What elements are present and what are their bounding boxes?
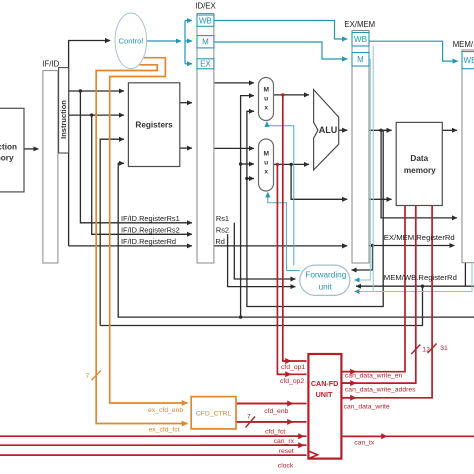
svg-text:MEM/: MEM/ <box>453 40 474 49</box>
svg-text:M: M <box>263 151 269 158</box>
svg-text:Instruction: Instruction <box>59 100 68 139</box>
svg-text:reset: reset <box>279 448 294 455</box>
svg-text:M: M <box>357 55 364 64</box>
svg-text:31: 31 <box>440 345 448 352</box>
svg-text:ex_cfd_fct: ex_cfd_fct <box>149 427 180 434</box>
svg-text:WB: WB <box>464 56 474 65</box>
svg-text:can_data_write_en: can_data_write_en <box>345 373 403 380</box>
svg-text:7: 7 <box>86 373 90 380</box>
svg-text:WB: WB <box>199 17 212 26</box>
svg-text:Rs1: Rs1 <box>216 214 229 223</box>
svg-text:IF/ID.RegisterRs1: IF/ID.RegisterRs1 <box>121 214 180 223</box>
svg-text:EX/MEM: EX/MEM <box>344 20 375 29</box>
svg-text:cfd_op1: cfd_op1 <box>281 364 305 371</box>
svg-text:Instruction: Instruction <box>0 143 17 152</box>
svg-text:EX: EX <box>200 60 211 69</box>
svg-text:IF/ID.RegisterRd: IF/ID.RegisterRd <box>121 237 176 246</box>
svg-text:7: 7 <box>247 413 251 420</box>
svg-text:Control: Control <box>119 36 144 45</box>
svg-text:MEM/WB.RegisterRd: MEM/WB.RegisterRd <box>384 273 457 282</box>
svg-text:u: u <box>264 95 268 102</box>
svg-text:u: u <box>264 160 268 167</box>
svg-text:M: M <box>202 38 209 47</box>
svg-text:cfd_enb: cfd_enb <box>264 408 288 415</box>
svg-text:Rd: Rd <box>215 237 224 246</box>
svg-text:unit: unit <box>319 282 333 291</box>
svg-text:Registers: Registers <box>135 120 173 129</box>
svg-text:can_data_write: can_data_write <box>344 404 390 411</box>
svg-text:IF/ID.RegisterRs2: IF/ID.RegisterRs2 <box>121 225 180 234</box>
svg-text:cfd_op2: cfd_op2 <box>280 378 304 385</box>
svg-text:Data: Data <box>410 154 428 163</box>
svg-text:CAN-FD: CAN-FD <box>311 379 339 388</box>
svg-text:EX/MEM.RegisterRd: EX/MEM.RegisterRd <box>384 233 455 242</box>
svg-text:x: x <box>264 104 268 111</box>
svg-text:can_rx: can_rx <box>274 438 295 445</box>
svg-text:cfd_fct: cfd_fct <box>265 429 285 436</box>
svg-text:can_tx: can_tx <box>354 440 375 447</box>
svg-text:ex_cfd_enb: ex_cfd_enb <box>148 407 183 414</box>
svg-text:Rs2: Rs2 <box>216 225 229 234</box>
svg-text:IF/ID: IF/ID <box>42 59 59 68</box>
svg-text:M: M <box>263 86 269 93</box>
svg-text:clock: clock <box>278 462 294 469</box>
svg-text:12: 12 <box>422 347 430 354</box>
svg-text:Forwarding: Forwarding <box>305 271 346 280</box>
svg-text:memory: memory <box>404 166 436 175</box>
svg-text:can_data_write_addres: can_data_write_addres <box>345 387 416 394</box>
svg-text:memory: memory <box>0 154 14 163</box>
svg-text:CFD_CTRL: CFD_CTRL <box>196 411 232 418</box>
svg-text:ID/EX: ID/EX <box>195 1 216 10</box>
svg-text:x: x <box>264 169 268 176</box>
svg-text:WB: WB <box>354 35 367 44</box>
svg-text:UNIT: UNIT <box>316 390 333 399</box>
svg-text:ALU: ALU <box>319 125 338 135</box>
